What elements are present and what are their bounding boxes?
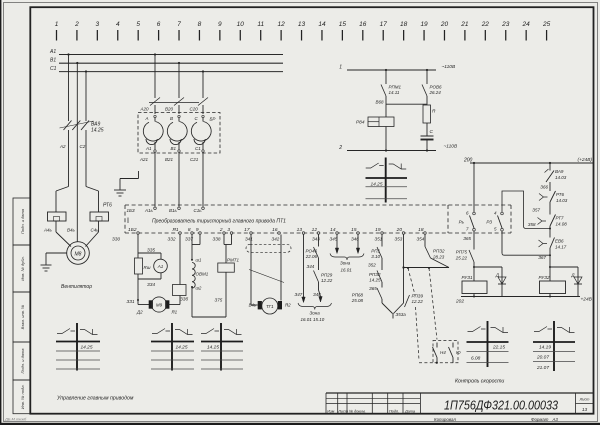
svg-text:19: 19	[375, 227, 381, 233]
svg-text:12.22: 12.22	[412, 299, 424, 304]
svg-text:З45: З45	[330, 237, 338, 242]
svg-text:16.01 15.10: 16.01 15.10	[301, 317, 325, 322]
svg-text:Р84: Р84	[356, 120, 365, 126]
svg-text:А21: А21	[139, 157, 149, 162]
svg-text:ш1: ш1	[196, 258, 202, 263]
svg-text:В20: В20	[165, 107, 174, 112]
svg-text:ш2: ш2	[196, 285, 202, 290]
svg-text:8: 8	[188, 227, 191, 233]
svg-text:14.25: 14.25	[369, 278, 381, 283]
svg-text:13: 13	[298, 21, 306, 28]
svg-text:А4ь: А4ь	[43, 228, 53, 233]
svg-text:Преобразователь тиристорный гл: Преобразователь тиристорный главного при…	[152, 218, 286, 225]
svg-text:Лист: Лист	[579, 398, 590, 402]
svg-text:З47: З47	[295, 292, 303, 297]
svg-text:С21: С21	[190, 157, 199, 162]
svg-text:17: 17	[244, 227, 250, 233]
svg-text:В1ь: В1ь	[169, 208, 178, 213]
svg-text:ЗЗ1: ЗЗ1	[127, 299, 136, 304]
svg-text:З52: З52	[368, 263, 376, 268]
svg-text:В68: В68	[375, 100, 384, 105]
svg-text:З53а: З53а	[396, 312, 407, 317]
svg-text:З54: З54	[417, 237, 425, 242]
svg-text:А3: А3	[552, 417, 559, 422]
svg-text:14.08: 14.08	[556, 222, 568, 227]
svg-text:Рь: Рь	[459, 220, 465, 225]
svg-text:З42: З42	[272, 237, 280, 242]
svg-text:Вентилятор: Вентилятор	[61, 284, 92, 290]
svg-text:БР: БР	[210, 117, 216, 122]
svg-text:2: 2	[219, 227, 223, 233]
svg-text:14.19: 14.19	[539, 345, 551, 351]
svg-text:5: 5	[136, 21, 140, 28]
svg-text:15: 15	[339, 21, 347, 28]
svg-text:8: 8	[198, 21, 202, 28]
svg-text:14.03: 14.03	[556, 198, 568, 203]
svg-text:15: 15	[351, 227, 357, 233]
svg-text:17: 17	[380, 21, 388, 28]
svg-text:РМТ1: РМТ1	[227, 258, 239, 263]
svg-text:А1: А1	[145, 146, 152, 151]
svg-text:20.07: 20.07	[536, 355, 549, 361]
svg-text:Подп. и дата: Подп. и дата	[20, 348, 25, 374]
svg-text:14.25: 14.25	[91, 128, 104, 134]
svg-text:А1ь: А1ь	[144, 208, 154, 213]
svg-text:РОВ6: РОВ6	[430, 85, 443, 90]
svg-text:Rш: Rш	[144, 265, 151, 270]
svg-text:14.25: 14.25	[207, 345, 219, 351]
svg-text:З48: З48	[313, 292, 321, 297]
svg-text:РП75: РП75	[456, 250, 468, 255]
svg-text:6: 6	[157, 21, 161, 28]
svg-text:З44: З44	[307, 264, 315, 269]
svg-text:21.07: 21.07	[536, 365, 549, 371]
svg-text:16.01: 16.01	[341, 268, 353, 273]
svg-text:З66: З66	[540, 185, 548, 190]
svg-text:Инв. № дубл.: Инв. № дубл.	[20, 256, 25, 281]
svg-text:25.22: 25.22	[455, 256, 468, 261]
svg-text:3.10: 3.10	[371, 254, 380, 259]
svg-text:1: 1	[339, 65, 342, 71]
svg-text:РПЗ9: РПЗ9	[412, 294, 424, 299]
svg-text:РПМ1: РПМ1	[389, 85, 402, 90]
svg-text:14.03: 14.03	[555, 175, 567, 180]
svg-text:25.08: 25.08	[351, 298, 364, 303]
svg-text:Я2: Я2	[284, 303, 291, 308]
svg-text:14.17: 14.17	[555, 245, 567, 250]
svg-text:Я1: Я1	[171, 310, 178, 315]
svg-text:З57: З57	[532, 208, 540, 213]
svg-text:16: 16	[272, 227, 278, 233]
svg-text:9: 9	[218, 21, 222, 28]
svg-text:1БЗ: 1БЗ	[127, 208, 135, 213]
svg-text:А: А	[145, 116, 149, 121]
svg-text:М9: М9	[156, 303, 163, 308]
svg-text:В4ь: В4ь	[67, 228, 76, 233]
svg-text:З43: З43	[312, 237, 320, 242]
svg-text:200: 200	[463, 158, 473, 164]
svg-text:22: 22	[481, 21, 490, 28]
svg-text:10: 10	[237, 21, 245, 28]
svg-text:З58: З58	[528, 222, 536, 227]
svg-text:РП29: РП29	[321, 273, 333, 278]
svg-text:R: R	[432, 109, 436, 115]
svg-text:Н4: Н4	[440, 350, 446, 355]
svg-text:З53: З53	[395, 237, 403, 242]
svg-text:Зона: Зона	[310, 311, 321, 316]
svg-text:Зона: Зона	[340, 261, 351, 266]
svg-text:Подп.: Подп.	[389, 409, 399, 413]
svg-text:С1: С1	[50, 66, 57, 72]
svg-text:3: 3	[227, 227, 230, 233]
svg-text:РЗ: РЗ	[486, 220, 492, 225]
svg-text:21: 21	[460, 21, 469, 28]
svg-text:А1: А1	[157, 264, 164, 269]
svg-text:ЗЗ2: ЗЗ2	[168, 237, 177, 242]
svg-text:Инв. № подл.: Инв. № подл.	[20, 384, 25, 409]
svg-text:14.25: 14.25	[176, 345, 188, 351]
svg-text:РПЗ2: РПЗ2	[433, 249, 445, 254]
svg-text:С: С	[430, 129, 434, 135]
svg-text:З51: З51	[375, 237, 383, 242]
svg-text:14.25: 14.25	[371, 182, 383, 188]
svg-text:А1: А1	[49, 49, 56, 55]
svg-text:2: 2	[74, 21, 79, 28]
svg-text:З67: З67	[538, 255, 546, 260]
svg-text:ЗЗ4: ЗЗ4	[147, 282, 156, 287]
svg-text:В1: В1	[171, 146, 177, 151]
svg-text:РТ6: РТ6	[103, 203, 112, 209]
svg-text:С1ь: С1ь	[194, 208, 203, 213]
svg-text:Подп. и дата: Подп. и дата	[20, 208, 25, 234]
svg-text:Контроль скорости: Контроль скорости	[455, 379, 504, 385]
svg-text:23: 23	[501, 21, 510, 28]
svg-text:13: 13	[297, 227, 303, 233]
svg-text:Управление главным приводом: Управление главным приводом	[57, 396, 134, 402]
svg-text:20: 20	[440, 21, 449, 28]
svg-text:9: 9	[196, 227, 199, 233]
svg-text:ЗЗ0: ЗЗ0	[112, 237, 121, 242]
svg-text:7: 7	[177, 21, 181, 28]
svg-text:Ю: Ю	[456, 350, 461, 355]
svg-text:14: 14	[330, 227, 336, 233]
svg-text:М8: М8	[75, 251, 82, 257]
svg-text:~110В: ~110В	[442, 64, 456, 70]
svg-text:РП1: РП1	[371, 249, 380, 254]
svg-text:В21: В21	[165, 157, 174, 162]
svg-text:№ докум.: № докум.	[349, 409, 366, 413]
svg-text:С2: С2	[80, 144, 86, 149]
svg-text:1Б2: 1Б2	[128, 227, 137, 233]
svg-text:В4ь: В4ь	[249, 303, 256, 308]
svg-text:+24В: +24В	[581, 297, 593, 303]
svg-text:Изм: Изм	[327, 409, 334, 413]
svg-text:А20: А20	[140, 107, 150, 112]
svg-text:19: 19	[420, 21, 428, 28]
svg-text:ОВМ1: ОВМ1	[196, 272, 209, 277]
svg-text:26.24: 26.24	[429, 90, 442, 95]
svg-text:202: 202	[455, 299, 464, 305]
svg-text:18: 18	[418, 227, 424, 233]
svg-text:З65: З65	[369, 286, 377, 291]
svg-text:РО46: РО46	[305, 249, 317, 254]
svg-text:ТГ1: ТГ1	[266, 304, 274, 309]
svg-text:6.08: 6.08	[471, 356, 481, 362]
svg-text:11: 11	[257, 21, 264, 28]
svg-text:С20: С20	[190, 107, 199, 112]
svg-text:РТ6: РТ6	[556, 192, 564, 197]
svg-text:З41: З41	[245, 237, 253, 242]
svg-text:РТ7: РТ7	[556, 216, 564, 221]
svg-text:Я1: Я1	[172, 227, 179, 233]
svg-text:РП68: РП68	[352, 293, 364, 298]
svg-text:2: 2	[338, 145, 342, 151]
svg-text:4: 4	[116, 21, 120, 28]
svg-text:1П756ДФ321.00.00033: 1П756ДФ321.00.00033	[444, 398, 559, 413]
svg-text:РПЗ2: РПЗ2	[369, 272, 381, 277]
svg-text:ЗЗб: ЗЗб	[180, 297, 189, 302]
svg-text:ДБ.М.ткжб: ДБ.М.ткжб	[4, 417, 27, 422]
svg-text:25: 25	[542, 21, 551, 28]
svg-text:Д2: Д2	[136, 310, 143, 315]
svg-text:ВА9: ВА9	[555, 169, 564, 174]
svg-text:12: 12	[278, 21, 286, 28]
svg-text:20: 20	[396, 227, 403, 233]
svg-text:ЗЗ8: ЗЗ8	[213, 237, 222, 242]
svg-text:3: 3	[96, 21, 100, 28]
svg-text:В: В	[170, 116, 173, 121]
svg-text:В1: В1	[50, 58, 56, 64]
svg-text:14: 14	[318, 21, 326, 28]
svg-text:А2: А2	[59, 144, 66, 149]
svg-text:22.06: 22.06	[305, 254, 318, 259]
svg-text:14.11: 14.11	[389, 90, 400, 95]
svg-text:РУЗ1: РУЗ1	[462, 275, 473, 280]
svg-text:Взам. инв. №: Взам. инв. №	[20, 304, 25, 329]
svg-text:С1: С1	[195, 146, 201, 151]
svg-text:Формат: Формат	[531, 417, 549, 422]
svg-text:Лист: Лист	[337, 409, 348, 413]
svg-text:24: 24	[522, 21, 531, 28]
svg-text:13: 13	[582, 407, 588, 413]
svg-text:С4ь: С4ь	[91, 228, 100, 233]
svg-text:~110В: ~110В	[444, 144, 458, 150]
svg-text:12: 12	[312, 227, 318, 233]
svg-text:Дата: Дата	[404, 409, 415, 413]
svg-text:ЗЗ5: ЗЗ5	[147, 248, 156, 253]
svg-text:16: 16	[359, 21, 367, 28]
svg-text:18: 18	[400, 21, 408, 28]
svg-text:14.25: 14.25	[81, 345, 93, 351]
svg-text:РУЗ2: РУЗ2	[539, 275, 550, 280]
svg-text:28.23: 28.23	[432, 255, 445, 260]
svg-text:ЕВ6: ЕВ6	[555, 239, 564, 244]
svg-text:(+24В): (+24В)	[577, 157, 592, 163]
svg-text:1: 1	[55, 21, 59, 28]
svg-text:З75: З75	[215, 298, 223, 303]
svg-text:З65: З65	[463, 236, 471, 241]
svg-text:Копировал: Копировал	[434, 417, 456, 422]
svg-text:22.15: 22.15	[492, 345, 505, 351]
svg-text:12.22: 12.22	[321, 278, 333, 283]
